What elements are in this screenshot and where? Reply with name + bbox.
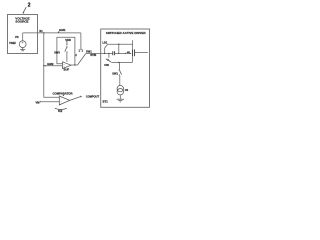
switch SW3: [65, 46, 68, 52]
switch C08 contact: [107, 59, 108, 60]
Q1 source drop: [132, 56, 134, 62]
svg-text:LD1: LD1: [102, 40, 107, 44]
svg-text:VDD: VDD: [65, 38, 71, 42]
comparator output wire: [70, 96, 82, 101]
GM1 leader arrow: [58, 31, 60, 33]
wire CS to ground: [119, 95, 121, 99]
terminal stub wire: [80, 33, 81, 51]
switched active driver box: [101, 29, 150, 107]
svg-text:SW3: SW3: [54, 50, 60, 54]
top rail wire: [108, 43, 133, 45]
ground in source box: [20, 48, 25, 51]
wire source top stub: [22, 33, 24, 41]
input arrowhead: [45, 65, 47, 66]
wire vertical down to comparator: [44, 33, 60, 97]
current source CS circles: [117, 85, 123, 91]
buffer output wire: [71, 64, 78, 66]
wire switch to buffer top: [66, 53, 68, 62]
switch LD1 blade: [105, 44, 108, 48]
svg-text:VM: VM: [36, 100, 40, 104]
svg-text:SOURCE: SOURCE: [15, 20, 28, 24]
buffer feedback loop wire: [57, 37, 75, 65]
svg-text:SW1: SW1: [112, 72, 118, 76]
svg-text:SW1: SW1: [86, 49, 92, 53]
capacitor C1 plates: [113, 51, 115, 55]
op-amp buffer BUF: [63, 62, 72, 69]
buffer input wire from node: [44, 65, 63, 67]
Q1 drain stub: [132, 40, 134, 49]
switch C08 riser: [108, 53, 110, 57]
VDD branch wire with arrow: [66, 41, 67, 46]
plus mark in source: [22, 42, 24, 44]
svg-text:BUF: BUF: [64, 68, 70, 72]
svg-text:SWITCHED ACTIVE DRIVER: SWITCHED ACTIVE DRIVER: [106, 31, 147, 35]
transistor Q1 bars: [133, 49, 135, 56]
junction on top rail: [118, 44, 119, 45]
svg-text:812: 812: [58, 110, 63, 113]
wire BTIN into driver box: [86, 53, 101, 55]
arrowhead into Q1: [130, 53, 132, 54]
svg-text:GM1: GM1: [59, 28, 66, 32]
mid wire right segment: [115, 52, 131, 54]
VM input wire with arrowhead: [40, 101, 60, 103]
wire main node N1 horizontal: [23, 32, 81, 34]
comparator triangle: [59, 96, 70, 105]
junction at buffer output: [74, 64, 75, 65]
comparator leader arrow: [63, 95, 65, 97]
svg-text:COMPOUT: COMPOUT: [86, 94, 100, 98]
ref numeral 2 with leader arrow: [23, 7, 27, 14]
svg-text:C08: C08: [104, 64, 109, 67]
lower net wire: [111, 61, 132, 63]
svg-text:CS: CS: [125, 89, 129, 92]
voltage source VS circle: [19, 41, 26, 48]
node junction on main wire: [43, 32, 44, 33]
junction on lower net: [118, 62, 119, 63]
mid wire left segment: [101, 52, 113, 54]
svg-text:VREF: VREF: [9, 41, 16, 45]
brace under comparator: [55, 108, 67, 109]
svg-text:2: 2: [28, 3, 31, 9]
svg-text:VS: VS: [15, 35, 19, 39]
svg-text:BT1: BT1: [103, 99, 109, 103]
wire rail drop: [118, 44, 120, 53]
switch SW1: [119, 70, 122, 76]
wire diagonal rise to BTIN: [78, 54, 86, 66]
svg-text:BTIN: BTIN: [90, 54, 96, 57]
ground: [117, 99, 124, 102]
comparator input marks: [61, 98, 62, 102]
svg-text:GM2: GM2: [47, 62, 54, 66]
wire SW1 to current source: [119, 76, 121, 86]
junction dots on mid wire: [104, 53, 105, 54]
wire down to SW1: [118, 62, 120, 69]
voltage source box: [8, 15, 38, 54]
wire LD1 riser: [104, 48, 106, 54]
svg-text:COMPARATOR: COMPARATOR: [52, 91, 72, 95]
buffer input marks: [64, 64, 65, 66]
Q1 gate wire: [135, 52, 148, 54]
junction at buffer input tap: [43, 65, 44, 66]
switch C08 blade: [106, 59, 111, 62]
